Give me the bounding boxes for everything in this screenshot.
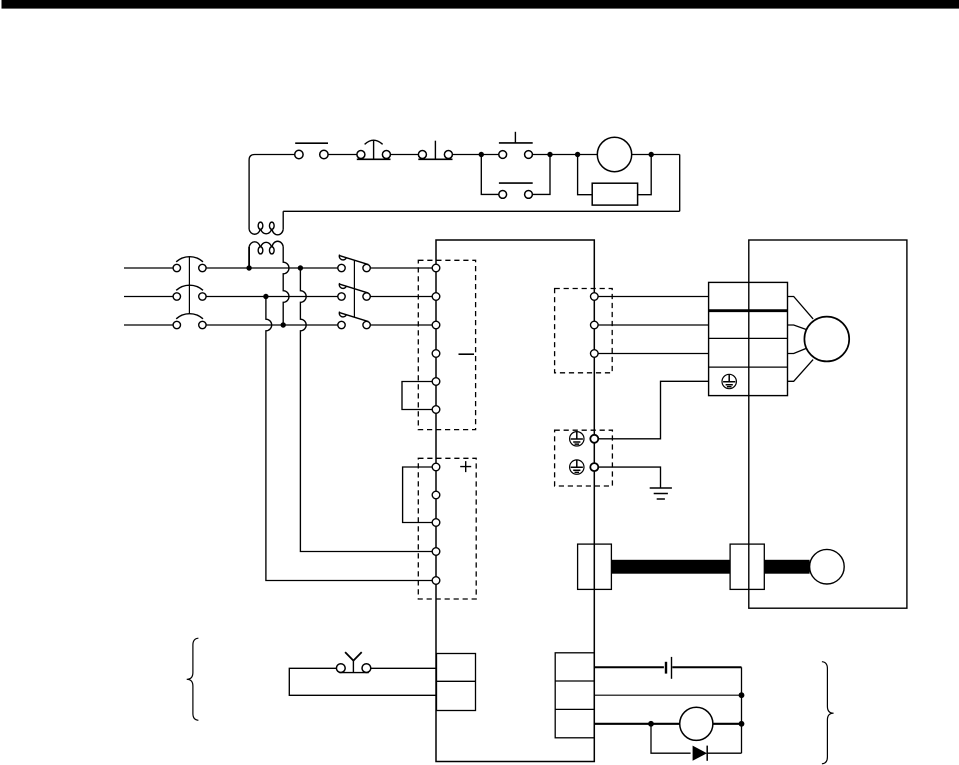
earth symbol motor block — [722, 374, 736, 388]
terminal block dashed box DC — [418, 458, 476, 599]
terminal 7 — [432, 463, 440, 471]
wire output Y to motor block — [598, 324, 709, 326]
terminal V — [432, 293, 440, 301]
wire thermal switch loop return — [289, 668, 436, 695]
transformer T1 secondary winding — [249, 222, 283, 235]
wire exciter row 3 — [594, 723, 680, 725]
jumper link terminals 5-6 — [402, 382, 436, 410]
shaft bar — [611, 560, 730, 574]
transformer T1 primary winding — [249, 241, 283, 254]
wire — [632, 154, 680, 156]
pushbutton PB2 start — [418, 141, 452, 160]
diode D1 — [693, 746, 742, 761]
plus label — [460, 461, 471, 472]
wire transformer primary right lead with hops — [283, 247, 289, 325]
wire exciter row 2 — [594, 694, 741, 696]
wire input line L2 — [124, 296, 338, 298]
terminal 4 — [432, 350, 440, 358]
wire capacitor to right — [672, 666, 741, 668]
node junction C — [575, 152, 580, 157]
flywheel circle — [810, 549, 845, 584]
terminal 5 — [432, 378, 440, 386]
node junction B — [547, 152, 552, 157]
breaker pole 2 — [173, 285, 206, 300]
terminal block dashed box earth — [555, 430, 613, 486]
bottom left terminal block — [437, 654, 476, 711]
terminal 8 — [432, 491, 440, 499]
breaker pole 1 — [173, 257, 206, 272]
coupling right — [730, 544, 764, 589]
terminal block dashed box AC input — [418, 260, 475, 429]
wire — [390, 154, 418, 156]
earth symbol E2 — [570, 460, 584, 474]
wire control loop right — [679, 155, 681, 212]
motor terminal block — [709, 282, 788, 395]
wire contactor to input terminals — [370, 268, 432, 325]
terminal U — [432, 264, 440, 272]
coil MC (contactor coil) — [597, 137, 631, 171]
wire — [532, 154, 597, 156]
earth symbol E1 — [570, 432, 584, 446]
motor M — [804, 317, 849, 362]
wire L2 tap down to DC terminal (with hop) — [266, 297, 432, 581]
output terminal X — [591, 293, 599, 301]
wire — [452, 154, 498, 156]
wire output X to motor block — [598, 296, 709, 298]
wire exciter row 1 — [594, 666, 664, 668]
node L2 tap — [263, 294, 268, 299]
earth terminal E1 — [590, 435, 598, 443]
wire output Z to motor block — [598, 353, 709, 355]
pushbutton PB1 stop (mushroom head) — [357, 140, 391, 159]
node junction A — [479, 152, 484, 157]
node T1 primary to L3 — [281, 322, 286, 327]
wire right bus vertical — [741, 667, 743, 753]
brace right — [822, 662, 834, 764]
auxiliary contact MCb (NO, lower) — [499, 183, 533, 198]
ground — [650, 488, 672, 499]
output terminal Z — [591, 350, 599, 358]
breaker linkage — [188, 257, 190, 314]
thermal switch TH — [336, 652, 370, 673]
wire earth E1 to motor block — [598, 381, 709, 439]
wire control loop bottom — [283, 210, 680, 212]
wire earth E2 to ground — [598, 467, 661, 488]
terminal W — [432, 321, 440, 329]
earth terminal E2 — [590, 463, 598, 471]
wire thermal switch loop top — [371, 667, 437, 669]
engine enclosure box — [749, 240, 907, 608]
contactor MC pole 2 — [338, 283, 371, 300]
switch S1 (NC contact) — [295, 143, 328, 159]
minus label — [459, 353, 475, 355]
jumper link terminals 7-9 — [403, 467, 436, 523]
wire — [328, 154, 357, 156]
node row3 junction — [739, 721, 745, 727]
wire L1 tap down to DC terminal (with hops) — [300, 268, 432, 552]
resistor R1 — [578, 155, 652, 206]
terminal block dashed box output — [555, 289, 613, 373]
wire motor to junction — [713, 723, 742, 725]
brace left — [187, 638, 199, 720]
contactor MC pole 3 — [338, 312, 371, 329]
terminal 6 — [432, 406, 440, 414]
shaft bar 2 — [764, 560, 809, 574]
node T1 primary to L1 — [246, 265, 251, 270]
terminal 10 — [432, 548, 440, 556]
wire input line L3 — [124, 324, 338, 326]
output terminal Y — [591, 321, 599, 329]
coupling left — [578, 544, 612, 589]
wire control loop left — [248, 160, 250, 229]
wire transformer primary left lead — [248, 247, 250, 268]
wire control loop top segment 1 — [249, 155, 295, 161]
generator unit enclosure box — [436, 240, 594, 762]
wire input line L1 — [124, 267, 338, 269]
breaker pole 3 — [173, 314, 206, 329]
capacitor C1 — [666, 657, 672, 679]
wire diode branch — [651, 724, 691, 753]
exciter motor DM — [680, 707, 713, 740]
contactor MC pole 1 — [338, 255, 371, 272]
auxiliary contact MCa (NO, upper) — [499, 132, 533, 159]
node diode tap — [648, 721, 654, 727]
terminal 9 — [432, 519, 440, 527]
node row2 junction — [739, 692, 745, 698]
terminal 11 — [432, 577, 440, 585]
wire parallel branch — [481, 155, 550, 195]
motor M leads — [788, 297, 814, 382]
bottom right terminal block — [555, 653, 594, 738]
wire transformer secondary lead — [282, 211, 284, 229]
node L1 tap — [298, 265, 303, 270]
contactor linkage — [353, 260, 355, 317]
node junction D — [649, 152, 654, 157]
header bar — [2, 0, 959, 9]
